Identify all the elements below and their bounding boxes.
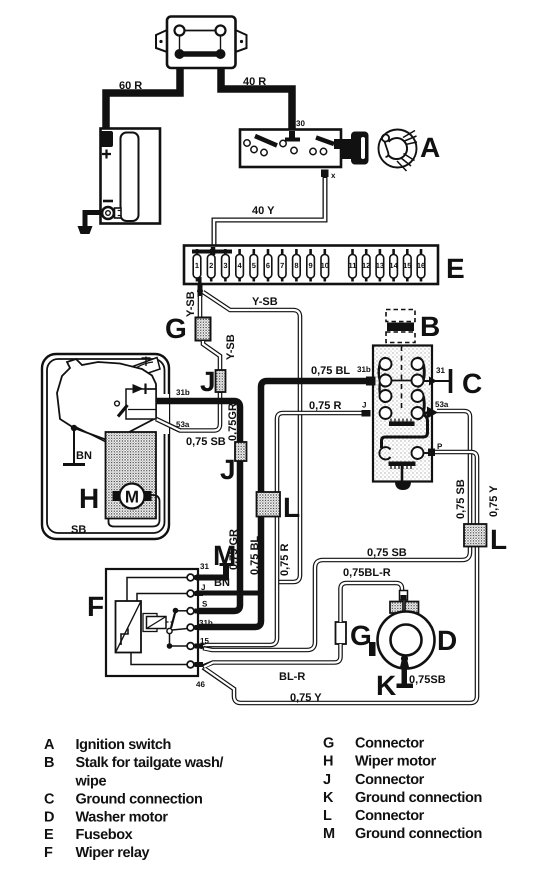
contact jumpers	[379, 358, 386, 387]
svg-text:Ignition switch: Ignition switch	[76, 737, 172, 753]
wiper relay F box	[106, 569, 198, 676]
svg-text:40 R: 40 R	[243, 76, 266, 88]
svg-text:Y-SB: Y-SB	[252, 296, 278, 308]
fuse clip contacts	[197, 249, 421, 282]
motor M	[113, 484, 152, 509]
wire Y-SB fuse junction to relay 15 (long)	[203, 292, 300, 582]
svg-text:0,75 R: 0,75 R	[309, 400, 341, 412]
svg-text:F: F	[87, 591, 104, 622]
dashed center line	[401, 346, 403, 411]
svg-text:0,75BL-R: 0,75BL-R	[343, 567, 391, 579]
svg-text:M: M	[213, 540, 236, 571]
relay terminals	[187, 574, 194, 668]
svg-text:15: 15	[200, 637, 209, 646]
washer motor D	[378, 612, 435, 669]
wire 0.75BL-R G2 to washer motor	[341, 583, 403, 622]
ground below battery	[78, 226, 93, 234]
svg-text:J: J	[200, 366, 216, 397]
stalk switch B dashed stalk	[386, 310, 415, 343]
svg-text:0,75 SB: 0,75 SB	[186, 436, 226, 448]
connector block (top)	[156, 17, 247, 69]
svg-text:Connector: Connector	[355, 736, 425, 752]
svg-text:Connector: Connector	[355, 772, 425, 788]
shield gap for wire exits	[161, 394, 169, 434]
wire 0.75SB switch 53a via L2 to relay 15	[203, 411, 470, 650]
svg-text:B: B	[44, 755, 54, 771]
svg-text:0,75 SB: 0,75 SB	[455, 479, 467, 519]
terminal 31b (B)	[366, 377, 376, 386]
svg-text:Connector: Connector	[355, 808, 425, 824]
svg-text:46: 46	[196, 680, 205, 689]
tick mark by G2	[369, 642, 376, 656]
svg-text:SB: SB	[71, 524, 86, 536]
wire 60R battery to connector block	[106, 57, 180, 133]
svg-text:BL-R: BL-R	[279, 671, 305, 683]
svg-text:5: 5	[252, 261, 256, 270]
svg-text:3: 3	[223, 261, 227, 270]
svg-text:x: x	[331, 171, 336, 180]
svg-text:Y-SB: Y-SB	[225, 334, 237, 360]
svg-text:G: G	[165, 313, 187, 344]
wire battery minus to ground	[85, 213, 101, 227]
svg-text:60 R: 60 R	[119, 80, 142, 92]
wire 0.75SB J1 to wiper motor	[156, 392, 220, 431]
relay coil	[143, 614, 157, 632]
lock cylinder	[341, 132, 369, 165]
wire 0.75Y switch P via L2 to relay	[203, 452, 477, 703]
svg-text:BN: BN	[214, 577, 230, 589]
svg-text:31b: 31b	[176, 388, 190, 397]
svg-text:J: J	[362, 401, 366, 410]
svg-text:31: 31	[436, 366, 445, 375]
svg-text:H: H	[323, 754, 333, 770]
legend	[44, 736, 482, 862]
wire 0.75SB segment over shield gap	[156, 419, 180, 431]
svg-text:C: C	[462, 368, 482, 399]
terminal J (B)	[362, 410, 371, 417]
terminal X	[321, 170, 329, 178]
relay contact	[173, 608, 179, 614]
svg-text:11: 11	[349, 261, 357, 270]
motor body stippled block	[106, 432, 157, 519]
connector G1	[196, 318, 211, 341]
wire fuse1 junction down to G	[198, 294, 203, 319]
battery	[100, 129, 160, 224]
connector L2	[464, 524, 487, 547]
svg-text:31b: 31b	[357, 365, 371, 374]
key symbol	[379, 130, 418, 172]
open contact C shape bottom-left	[379, 447, 390, 459]
svg-text:G: G	[323, 736, 334, 752]
svg-text:K: K	[376, 670, 396, 701]
washer motor D terminal	[400, 591, 408, 601]
svg-text:D: D	[44, 810, 54, 826]
terminal P (B)	[424, 452, 430, 454]
relay electronics box	[116, 601, 142, 653]
svg-text:M: M	[323, 826, 335, 842]
svg-text:L: L	[323, 808, 332, 824]
svg-text:6: 6	[266, 261, 270, 270]
svg-text:40 Y: 40 Y	[252, 205, 275, 217]
svg-text:A: A	[420, 132, 440, 163]
wire BL-R G2 to relay	[203, 644, 341, 667]
svg-text:G: G	[350, 620, 372, 651]
comb contact 2	[389, 462, 416, 467]
fuses 1-16	[193, 255, 425, 279]
cam switch housing	[126, 389, 156, 419]
wire 0.75R switch B J to relay 15	[200, 413, 367, 647]
svg-text:14: 14	[389, 261, 398, 270]
connector J2	[235, 442, 247, 461]
connector G2	[336, 622, 347, 644]
wire 0.75BL switch B 31b to relay 31b	[196, 381, 368, 627]
svg-text:16: 16	[417, 261, 425, 270]
ground K	[400, 659, 410, 669]
svg-text:12: 12	[362, 261, 370, 270]
svg-text:Wiper motor: Wiper motor	[355, 754, 437, 770]
svg-text:0,75 Y: 0,75 Y	[488, 485, 500, 517]
svg-text:Ground connection: Ground connection	[355, 790, 482, 806]
shield inner line	[47, 359, 165, 533]
pivot bump below B	[395, 482, 411, 491]
svg-text:Ground connection: Ground connection	[76, 792, 203, 808]
wire G to J1	[203, 340, 220, 371]
svg-text:J: J	[220, 454, 236, 485]
svg-text:2: 2	[209, 261, 213, 270]
wire relay J to 0.75BL	[196, 591, 262, 596]
svg-text:0,75SB: 0,75SB	[409, 674, 446, 686]
wire relay 31 to ground M	[196, 566, 226, 578]
ground (wiper motor)	[63, 463, 85, 466]
connector J1	[216, 370, 226, 392]
svg-text:H: H	[79, 483, 99, 514]
svg-text:M: M	[125, 488, 139, 507]
node BN junction	[71, 425, 77, 431]
svg-text:A: A	[44, 737, 55, 753]
wire fuse1 to G (thick stub)	[198, 283, 203, 297]
svg-text:1: 1	[195, 261, 199, 270]
svg-text:Fusebox: Fusebox	[76, 827, 133, 843]
wire 40R connector block to ignition switch	[221, 57, 292, 131]
svg-text:S: S	[202, 600, 208, 609]
svg-text:wipe: wipe	[75, 774, 107, 790]
svg-text:53a: 53a	[435, 400, 449, 409]
wire 40Y ignition X to fusebox	[214, 177, 325, 248]
terminal 31 + ground C	[424, 380, 450, 382]
svg-text:Ground connection: Ground connection	[355, 826, 482, 842]
connector L1	[257, 492, 281, 517]
svg-text:30: 30	[296, 119, 305, 128]
svg-text:0,75 SB: 0,75 SB	[367, 547, 407, 559]
svg-text:L: L	[283, 492, 300, 523]
tailgate window icon	[123, 358, 160, 378]
svg-text:Y-SB: Y-SB	[185, 291, 197, 317]
wire BN to ground	[73, 428, 75, 463]
svg-text:13: 13	[376, 261, 384, 270]
svg-text:15: 15	[403, 261, 411, 270]
svg-text:10: 10	[321, 261, 329, 270]
svg-text:K: K	[323, 790, 334, 806]
svg-text:J: J	[323, 772, 331, 788]
svg-text:L: L	[490, 524, 507, 555]
svg-text:E: E	[44, 827, 54, 843]
svg-text:0,75 R: 0,75 R	[279, 544, 291, 576]
comb contact 1	[389, 422, 415, 427]
wiper motor H shield outer	[42, 354, 169, 539]
relay internal wiring	[127, 578, 188, 602]
svg-text:9: 9	[309, 261, 313, 270]
svg-text:E: E	[446, 253, 465, 284]
svg-text:31: 31	[200, 562, 209, 571]
ignition switch A	[240, 130, 341, 168]
switch B route to wash contact	[382, 415, 428, 448]
wire M terminal loop	[109, 495, 160, 527]
svg-text:Wiper relay: Wiper relay	[76, 845, 150, 861]
svg-text:0,75 Y: 0,75 Y	[290, 692, 322, 704]
washer motor D collar	[390, 602, 403, 614]
diode	[133, 384, 144, 394]
svg-text:0,75 BL: 0,75 BL	[311, 365, 350, 377]
svg-text:P: P	[437, 442, 443, 451]
ground M bar	[220, 563, 234, 566]
svg-text:C: C	[44, 792, 55, 808]
svg-text:BN: BN	[76, 450, 92, 462]
fusebox E	[184, 246, 438, 286]
svg-text:F: F	[44, 845, 53, 861]
stalk switch B body	[373, 346, 432, 482]
svg-text:B: B	[420, 311, 440, 342]
svg-text:Washer motor: Washer motor	[76, 810, 169, 826]
contact circles	[380, 358, 424, 459]
terminal 53a (B)	[424, 412, 430, 415]
svg-text:7: 7	[280, 261, 284, 270]
junction node	[197, 288, 203, 294]
svg-text:D: D	[437, 625, 457, 656]
svg-text:0,75GR: 0,75GR	[227, 403, 239, 441]
svg-text:0,75 BL: 0,75 BL	[249, 536, 261, 575]
svg-text:Stalk for tailgate wash/: Stalk for tailgate wash/	[76, 755, 224, 771]
svg-text:31b: 31b	[199, 619, 213, 628]
wiper motor body outline	[57, 359, 156, 442]
contact arm	[118, 405, 128, 417]
svg-text:8: 8	[294, 261, 298, 270]
wire 31b/0.75GR wiper motor to relay S	[156, 401, 240, 611]
